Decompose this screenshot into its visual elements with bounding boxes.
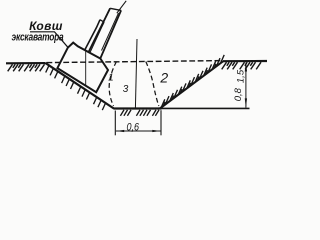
right slope line — [160, 61, 223, 108]
right swing arc (dashed) — [146, 62, 159, 107]
dashed ground level line — [47, 61, 224, 63]
trench bottom line — [114, 107, 162, 109]
hydraulic cylinder step — [100, 20, 104, 23]
svg-text:0,6: 0,6 — [127, 122, 140, 134]
hatching left slope — [46, 66, 106, 110]
bucket body — [57, 43, 108, 93]
left swing arc (dashed) — [109, 62, 116, 107]
bucket internal vertical line — [85, 50, 87, 86]
svg-text:0,8: 0,8 — [233, 87, 244, 101]
svg-text:2: 2 — [159, 69, 168, 85]
dimension 0,6: right extension line — [160, 110, 162, 135]
arm thin continuation line at top — [117, 1, 126, 13]
svg-text:3: 3 — [123, 84, 129, 95]
vertical dimension line 0,8-1,5 — [245, 63, 247, 108]
hatching under trench bottom — [120, 110, 159, 116]
excavator arm inner thin line — [102, 13, 119, 51]
dimension 0,6: left arrow — [116, 130, 124, 132]
svg-text:экскаватора: экскаватора — [12, 32, 65, 44]
hydraulic cylinder rod edge — [90, 22, 104, 53]
leader line — [30, 32, 68, 47]
svg-text:1,5: 1,5 — [235, 69, 246, 83]
excavator arm top cap — [110, 8, 121, 10]
dimension 0,6: right arrow — [152, 130, 160, 132]
dimension 0,6: dimension line — [116, 130, 161, 132]
vertical axis line — [135, 39, 137, 109]
bottom extension line to right — [162, 107, 250, 109]
hatching left ground — [8, 64, 45, 71]
ground line left — [6, 62, 46, 64]
hatching right ground — [222, 62, 261, 69]
dimension 0,6: left extension line — [114, 111, 116, 136]
hatching right slope (ticks above line) — [161, 55, 224, 108]
ground line right — [223, 60, 267, 62]
excavator arm left edge — [89, 8, 111, 52]
hydraulic cylinder left edge — [85, 20, 101, 51]
svg-text:1: 1 — [108, 73, 114, 84]
vertical dimension top arrow — [245, 62, 247, 71]
left slope line — [46, 63, 114, 108]
vertical dimension bottom arrow — [245, 98, 247, 108]
excavator arm right edge — [100, 10, 121, 58]
